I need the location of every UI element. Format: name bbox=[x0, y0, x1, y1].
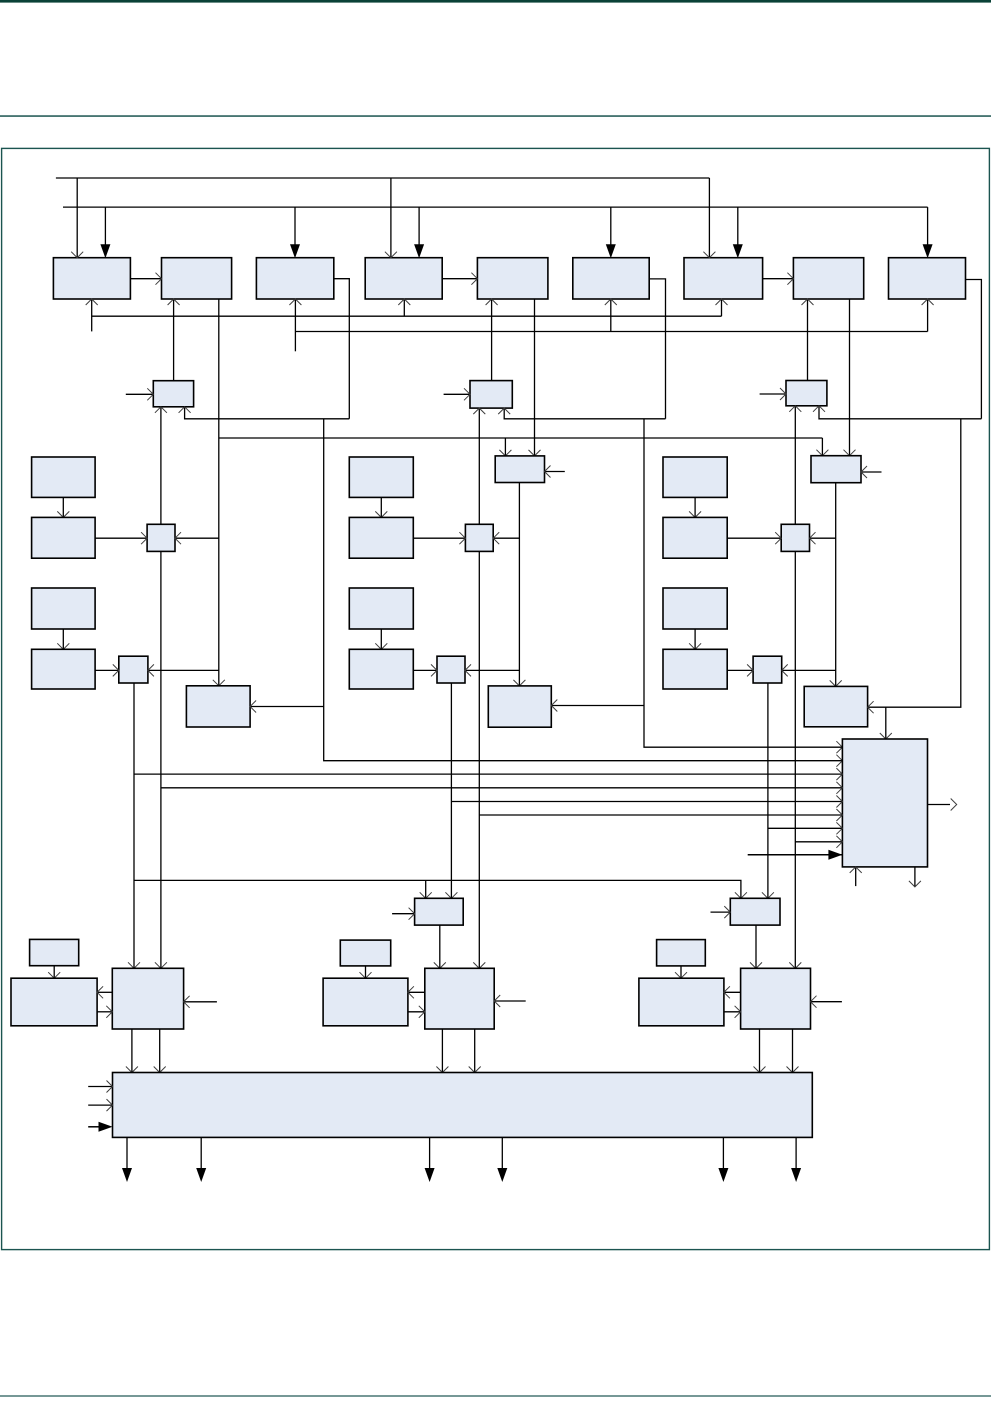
wire vert2 -> C2a right bbox=[493, 537, 519, 539]
arrow into S4 top left-in bbox=[420, 892, 432, 898]
wire E2 -> C2b bbox=[413, 669, 437, 671]
header rule bbox=[0, 115, 991, 117]
wire G2 vert -> DMA input 1 bbox=[644, 419, 842, 747]
wire bus2 -> B6 top bbox=[610, 207, 612, 245]
stem L output 6 bbox=[795, 1137, 797, 1169]
wire Q2 a -> L top bbox=[441, 1029, 443, 1073]
arrow DMA input 7 bbox=[836, 822, 842, 834]
wire B6 right -> down bbox=[649, 279, 665, 419]
box DMA bbox=[842, 739, 927, 867]
arrow into Q1 right bbox=[184, 996, 190, 1008]
filled arrow DMA input 9 bbox=[828, 850, 842, 860]
stub into S5 left bbox=[711, 911, 731, 913]
box S3 bbox=[786, 381, 827, 406]
square C3b bbox=[753, 656, 782, 683]
wire B8 bottom -> S3 top bbox=[807, 299, 809, 381]
arrow into B7 top bbox=[703, 252, 715, 258]
arrow into B9 bottom bbox=[922, 299, 934, 305]
wire Q1 b -> L top bbox=[159, 1029, 161, 1073]
arrow into B1 top bbox=[71, 252, 83, 258]
box T3 bbox=[811, 456, 861, 483]
page top bar bbox=[0, 0, 991, 3]
arrow into T3 top left-in bbox=[816, 450, 828, 456]
wire A1 -> B1b bbox=[62, 497, 64, 517]
wire vert3 -> C3b right bbox=[782, 669, 836, 671]
box S2 bbox=[470, 381, 512, 409]
bus 2 (lower horizontal) bbox=[63, 206, 928, 208]
wire line C -> T3 top bbox=[821, 438, 823, 456]
arrow into S2 left bbox=[464, 388, 470, 400]
wire bus1 -> B4 top bbox=[390, 178, 392, 258]
wire loop G1 (B3 feedback -> S1 bottom) bbox=[185, 407, 350, 419]
arrow into C2b right bbox=[465, 664, 471, 676]
arrow into B4 bottom bbox=[398, 299, 410, 305]
block B8 (row 1) bbox=[793, 258, 863, 299]
line B (sub-row bus) bbox=[295, 331, 927, 333]
arrow into B7 bottom bbox=[716, 299, 728, 305]
wire W (C1b branch -> S5 top) bbox=[134, 880, 741, 898]
wire Q2 b -> L top bbox=[474, 1029, 476, 1073]
stub DMA right output bbox=[928, 804, 951, 806]
wire DMA input 9 (bus) bbox=[748, 854, 843, 856]
wire S3 bottom -> Q3 top (through Csq3) bbox=[794, 406, 796, 969]
wire P3 -> W3 bbox=[680, 966, 682, 978]
block B4 (row 1) bbox=[365, 258, 442, 299]
wire branch -> DMA top bbox=[885, 707, 887, 739]
arrow into C2b left bbox=[431, 664, 437, 676]
stem L output 5 bbox=[722, 1137, 724, 1169]
arrow DMA input 5 bbox=[836, 796, 842, 808]
block B1 (row 1) bbox=[53, 258, 130, 299]
arrow into C3a left bbox=[775, 532, 781, 544]
box M2 bbox=[488, 686, 551, 727]
box A3 bbox=[663, 457, 727, 497]
stub into T2 right bbox=[545, 471, 565, 473]
wire G3 vert -> M3 right bbox=[868, 419, 961, 707]
arrow into L top (Q1 b) bbox=[154, 1067, 166, 1073]
wire D2 -> E2 bbox=[380, 629, 382, 649]
arrow into S5 left bbox=[724, 906, 730, 918]
filled arrow L output 6 bbox=[791, 1168, 801, 1182]
wire B3 right -> down bbox=[334, 279, 350, 419]
wire B5 bottom -> S2 top bbox=[491, 299, 493, 381]
arrow into Q3 top left-in bbox=[750, 962, 762, 968]
box A1 bbox=[32, 457, 96, 497]
arrow into C3b left bbox=[747, 664, 753, 676]
wire Bb1 -> C1a bbox=[95, 537, 147, 539]
wire G1 vert -> DMA input 2 bbox=[324, 419, 843, 761]
wire bus2 -> B1 top bbox=[104, 207, 106, 245]
arrow into B1b top bbox=[57, 511, 69, 517]
arrow into S4 top right-in bbox=[445, 892, 457, 898]
arrow into C1b right bbox=[148, 664, 154, 676]
arrow into B8 left bbox=[787, 273, 793, 285]
box Q2 bbox=[425, 968, 494, 1029]
arrow into T3 top right-in bbox=[844, 450, 856, 456]
wire branch -> M2 right bbox=[551, 705, 644, 707]
arrow DMA output right bbox=[951, 799, 957, 811]
arrow DMA input 2 bbox=[836, 755, 842, 767]
filled arrow into B9 top bbox=[923, 244, 933, 258]
arrow into E2 top bbox=[375, 643, 387, 649]
wire loop G2 (B6 feedback -> S2 bottom) bbox=[504, 408, 665, 419]
box S1 bbox=[153, 381, 193, 407]
arrow into E1 top bbox=[57, 643, 69, 649]
arrow into Q3 left bbox=[735, 1006, 741, 1018]
arrow into Q3 top right-in bbox=[789, 962, 801, 968]
wire B9 right -> down bbox=[966, 280, 982, 419]
block B6 (row 1) bbox=[573, 258, 649, 299]
arrow into E3 top bbox=[689, 643, 701, 649]
arrow into B3 bottom bbox=[289, 299, 301, 305]
arrow into Q2 right bbox=[494, 995, 500, 1007]
stub into Q2 right bbox=[494, 1000, 526, 1002]
arrow into W1 top bbox=[48, 972, 60, 978]
arrow into B2b top bbox=[375, 511, 387, 517]
wire C1b vert -> DMA input 3 bbox=[134, 773, 842, 775]
box P2 bbox=[340, 940, 390, 966]
wire vert2 -> C2b right bbox=[465, 669, 519, 671]
block B9 (row 1) bbox=[889, 258, 966, 299]
arrow into B1 bottom bbox=[86, 299, 98, 305]
wire bus1 -> B7 top (corner) bbox=[708, 178, 710, 258]
square C1a bbox=[147, 524, 175, 551]
arrow into B8 bottom bbox=[802, 299, 814, 305]
stub into S4 left bbox=[392, 913, 415, 915]
arrow into L top (Q1 a) bbox=[126, 1067, 138, 1073]
wire B4 -> B5 bbox=[442, 278, 477, 280]
wire Q1 -> W1 (upper) bbox=[97, 991, 112, 993]
wire C1a vert -> DMA input 4 bbox=[161, 787, 843, 789]
square C3a bbox=[781, 524, 809, 551]
box T2 bbox=[495, 456, 544, 483]
arrow into S1 bottom right bbox=[179, 407, 191, 413]
wire B1 -> B2 bbox=[130, 278, 161, 280]
wire Q1 a -> L top bbox=[131, 1029, 133, 1073]
arrow into B6 bottom bbox=[605, 299, 617, 305]
wire E1 -> C1b bbox=[95, 669, 119, 671]
wire bus2 -> B4 top bbox=[418, 207, 420, 245]
wire B8 bottom -> T3 top bbox=[849, 299, 851, 456]
block B3 (row 1) bbox=[256, 258, 333, 299]
stem L output 1 bbox=[126, 1137, 128, 1169]
arrow into C1a left bbox=[141, 532, 147, 544]
arrow into T2 top left-in bbox=[499, 450, 511, 456]
box P1 bbox=[30, 939, 79, 965]
stem L output 4 bbox=[501, 1137, 503, 1169]
box Bb1 bbox=[32, 517, 96, 558]
box Q3 bbox=[741, 968, 811, 1029]
arrow into T2 right bbox=[545, 466, 551, 478]
arrow into C2a right bbox=[493, 532, 499, 544]
wire B6 bottom -> line B bbox=[610, 299, 612, 332]
wire vert3 -> C3a right bbox=[810, 537, 836, 539]
wire W3 -> Q3 (lower) bbox=[724, 1011, 741, 1013]
filled arrow into L left 3 bbox=[99, 1122, 113, 1132]
arrow DMA output down bbox=[909, 881, 921, 887]
arrow into L top (Q3 a) bbox=[754, 1067, 766, 1073]
arrow into W3 top bbox=[675, 972, 687, 978]
arrow into B4 top bbox=[385, 252, 397, 258]
block B2 (row 1) bbox=[162, 258, 232, 299]
wire A3 -> B3b bbox=[694, 497, 696, 517]
footer rule bbox=[0, 1395, 991, 1396]
box S4 bbox=[415, 898, 464, 925]
box A2 bbox=[349, 457, 413, 497]
wire S2 bottom -> Q2 top (through Csq2) bbox=[478, 408, 480, 968]
stub into Q3 right bbox=[811, 1001, 842, 1003]
arrow into W1 right bbox=[97, 986, 103, 998]
arrow into L left 1 bbox=[107, 1081, 113, 1093]
arrow into S5 top left-in bbox=[735, 892, 747, 898]
arrow into L top (Q2 b) bbox=[469, 1067, 481, 1073]
arrow into W2 right bbox=[408, 986, 414, 998]
filled arrow into B6 top bbox=[606, 244, 616, 258]
box D1 bbox=[32, 588, 96, 629]
box Q1 bbox=[112, 968, 183, 1029]
arrow into DMA bottom bbox=[850, 867, 862, 873]
arrow into B5 bottom bbox=[486, 299, 498, 305]
wire vert1 -> C1b right bbox=[148, 669, 219, 671]
arrow into C1b left bbox=[113, 664, 119, 676]
wire S5 bottom -> Q3 top bbox=[755, 925, 757, 968]
box L (bottom long block) bbox=[113, 1073, 813, 1138]
arrow into S3 bottom right bbox=[813, 406, 825, 412]
wire Q2 -> W2 (upper) bbox=[408, 991, 425, 993]
wire branch -> M1 right bbox=[250, 706, 324, 708]
stub into Q1 right bbox=[184, 1001, 217, 1003]
arrow DMA input 4 bbox=[836, 782, 842, 794]
stub into S2 left bbox=[444, 393, 470, 395]
wire bus2 -> B7 top bbox=[737, 207, 739, 245]
arrow into M2 top bbox=[513, 680, 525, 686]
arrow into Q2 left bbox=[419, 1006, 425, 1018]
filled arrow into B4 top bbox=[414, 244, 424, 258]
wire Q3 b -> L top bbox=[792, 1029, 794, 1073]
arrow DMA input 6 bbox=[836, 809, 842, 821]
stem L output 2 bbox=[200, 1137, 202, 1169]
arrow into S2 bottom left bbox=[473, 408, 485, 414]
wire C3b bottom -> S5 top bbox=[767, 683, 769, 898]
arrow into Q3 right bbox=[811, 996, 817, 1008]
wire Q3 a -> L top bbox=[759, 1029, 761, 1073]
stub into L left 1 bbox=[88, 1086, 112, 1088]
arrow into C2a left bbox=[459, 532, 465, 544]
arrow into S3 left bbox=[780, 388, 786, 400]
square C2a bbox=[465, 524, 493, 551]
arrow into M2 right bbox=[551, 700, 557, 712]
stub into L left 2 bbox=[88, 1104, 112, 1106]
filled arrow L output 2 bbox=[196, 1168, 206, 1182]
stub into DMA bottom bbox=[855, 867, 857, 886]
box E1 bbox=[32, 649, 96, 689]
wire A2 -> B2b bbox=[380, 497, 382, 517]
wire W1 -> Q1 (lower) bbox=[97, 1011, 112, 1013]
arrow into S4 left bbox=[409, 908, 415, 920]
wire W2 -> Q2 (lower) bbox=[408, 1011, 425, 1013]
wire Bb2 -> C2a bbox=[413, 537, 465, 539]
arrow into S5 top right-in bbox=[762, 892, 774, 898]
box W1 bbox=[11, 978, 97, 1026]
wire B7 -> B8 bbox=[763, 278, 794, 280]
wire bus1 -> B1 top bbox=[76, 178, 78, 258]
arrow into Q1 left bbox=[106, 1006, 112, 1018]
stem L output 3 bbox=[429, 1137, 431, 1169]
wire bus2 -> B3 top bbox=[294, 207, 296, 245]
wire C2b bottom -> S4 top bbox=[450, 683, 452, 898]
arrow DMA input 8 bbox=[836, 836, 842, 848]
arrow into B3b top bbox=[689, 511, 701, 517]
arrow into W3 right bbox=[724, 986, 730, 998]
wire C2b vert -> DMA input 5 bbox=[451, 801, 842, 803]
arrow into M1 right bbox=[250, 701, 256, 713]
square C2b bbox=[437, 656, 465, 683]
stub into L left 3 (bus) bbox=[88, 1126, 103, 1128]
block B5 (row 1) bbox=[477, 258, 548, 299]
box W2 bbox=[323, 978, 408, 1026]
arrow into Q2 top left-in bbox=[434, 962, 446, 968]
arrow into B2 bottom bbox=[168, 299, 180, 305]
arrow into Q1 top right-in bbox=[155, 962, 167, 968]
filled arrow into B7 top bbox=[733, 244, 743, 258]
box E2 bbox=[349, 649, 413, 689]
arrow into M1 top bbox=[213, 680, 225, 686]
wire loop G3 (B9 feedback -> S3 bottom) bbox=[819, 406, 981, 419]
box S5 bbox=[730, 898, 780, 925]
arrow into M3 top bbox=[830, 680, 842, 686]
box D2 bbox=[349, 588, 413, 629]
wire line B -> B9 bottom bbox=[927, 299, 929, 332]
arrow DMA input 1 bbox=[836, 741, 842, 753]
line C (mid horizontal bus) bbox=[219, 437, 823, 439]
wire T2 bottom -> M2 top bbox=[518, 483, 520, 686]
arrow into DMA top bbox=[880, 733, 892, 739]
arrow into L top (Q2 a) bbox=[436, 1067, 448, 1073]
box Bb2 bbox=[349, 517, 413, 558]
arrow into L top (Q3 b) bbox=[787, 1067, 799, 1073]
wire vert1 -> C1a right bbox=[175, 537, 219, 539]
diagram frame bbox=[2, 148, 990, 1249]
box M1 bbox=[186, 686, 250, 727]
bus 1 (upper horizontal) bbox=[56, 177, 710, 179]
arrow into W2 top bbox=[360, 972, 372, 978]
arrow into S1 bottom left bbox=[155, 407, 167, 413]
arrow into L left 2 bbox=[107, 1099, 113, 1111]
filled arrow into B1 top bbox=[100, 244, 110, 258]
wire W branch -> S4 top bbox=[425, 880, 427, 898]
wire D1 -> E1 bbox=[62, 629, 64, 649]
wire S4 bottom -> Q2 top bbox=[439, 925, 441, 968]
wire C2a vert -> DMA input 6 bbox=[479, 814, 842, 816]
wire bus2 -> B9 top (corner) bbox=[927, 207, 929, 245]
box P3 bbox=[657, 940, 706, 966]
wire D3 -> E3 bbox=[694, 629, 696, 649]
wire C3b vert -> DMA input 7 bbox=[768, 827, 843, 829]
filled arrow L output 5 bbox=[718, 1168, 728, 1182]
square C1b bbox=[119, 656, 148, 683]
arrow into S1 left bbox=[147, 388, 153, 400]
arrow into M3 right bbox=[868, 701, 874, 713]
wire E3 -> C3b bbox=[727, 669, 753, 671]
filled arrow into B3 top bbox=[290, 244, 300, 258]
stub DMA bottom output bbox=[914, 867, 916, 887]
arrow into B5 left bbox=[471, 273, 477, 285]
arrow into C1a right bbox=[175, 532, 181, 544]
wire C3a vert -> DMA input 8 bbox=[795, 841, 842, 843]
box W3 bbox=[639, 978, 724, 1026]
arrow into Q2 top right-in bbox=[473, 962, 485, 968]
arrow into S3 bottom left bbox=[789, 406, 801, 412]
block B7 (row 1) bbox=[684, 258, 763, 299]
wire B4 bottom -> line A bbox=[403, 299, 405, 316]
arrow DMA input 3 bbox=[836, 768, 842, 780]
arrow into T2 top right-in bbox=[529, 450, 541, 456]
arrow into C3b right bbox=[782, 664, 788, 676]
wire B2 bottom -> M1 top bbox=[218, 299, 220, 686]
stub into S3 left bbox=[760, 393, 786, 395]
filled arrow L output 1 bbox=[122, 1168, 132, 1182]
arrow into Q1 top left-in bbox=[128, 962, 140, 968]
arrow into S2 bottom right bbox=[498, 408, 510, 414]
box D3 bbox=[663, 588, 727, 629]
filled arrow L output 4 bbox=[497, 1168, 507, 1182]
wire B2 bottom -> S1 top bbox=[173, 299, 175, 381]
wire line C -> T2 top bbox=[504, 438, 506, 456]
wire C1b bottom -> Q1 top bbox=[133, 683, 135, 968]
stub below B1 bbox=[91, 299, 93, 331]
wire Q3 -> W3 (upper) bbox=[724, 991, 741, 993]
stub below B3 bbox=[294, 299, 296, 351]
box E3 bbox=[663, 649, 727, 689]
wire P1 -> W1 bbox=[53, 966, 55, 979]
wire line A -> B7 bottom bbox=[721, 299, 723, 316]
arrow into C3a right bbox=[810, 532, 816, 544]
arrow into B2 left bbox=[156, 273, 162, 285]
wire T3 bottom -> M3 top bbox=[835, 483, 837, 687]
wire P2 -> W2 bbox=[365, 966, 367, 978]
wire Bb3 -> C3a bbox=[727, 537, 781, 539]
stub into T3 right bbox=[861, 471, 882, 473]
wire S1 bottom -> Q1 top (through Csq1) bbox=[160, 407, 162, 969]
box Bb3 bbox=[663, 517, 727, 558]
arrow into T3 right bbox=[861, 466, 867, 478]
line A (sub-row bus) bbox=[92, 315, 722, 317]
box M3 bbox=[804, 686, 867, 726]
wire B5 bottom -> T2 top bbox=[534, 299, 536, 456]
stub into S1 left bbox=[126, 393, 154, 395]
filled arrow L output 3 bbox=[425, 1168, 435, 1182]
